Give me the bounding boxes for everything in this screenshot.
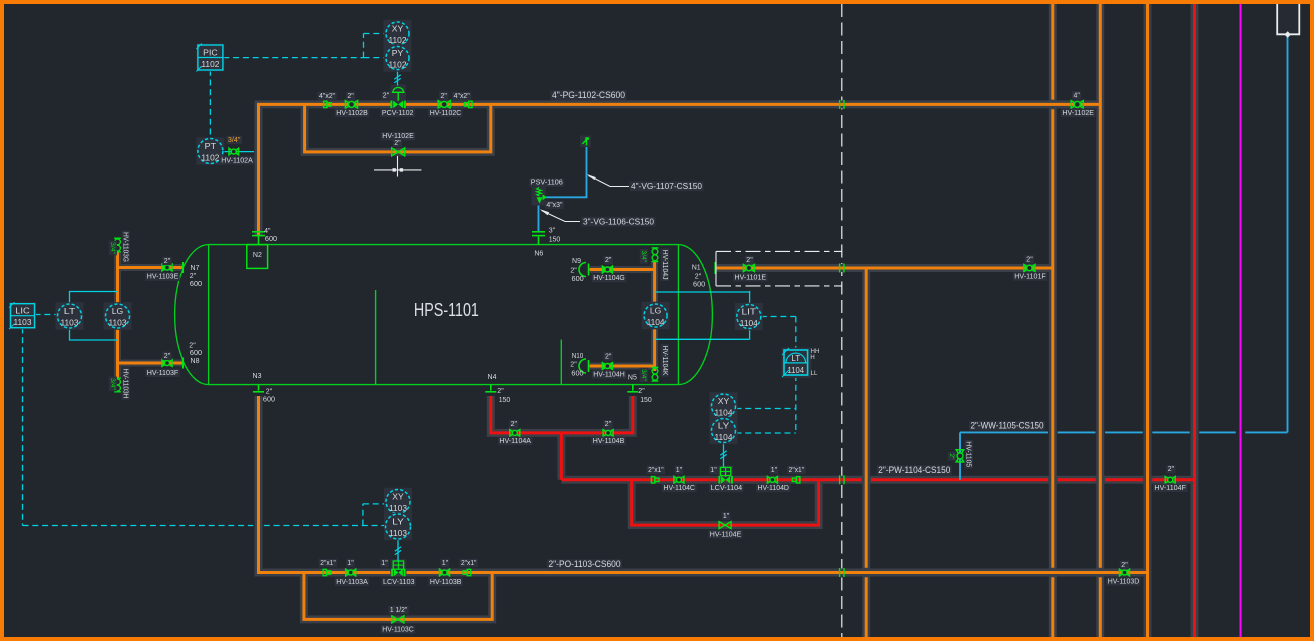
svg-text:2": 2" [638, 388, 645, 395]
label HV-1104A [498, 437, 533, 445]
svg-text:LCV-1103: LCV-1103 [383, 579, 415, 586]
right gauge standpipe [653, 261, 656, 304]
label HV-1102E bypass [381, 132, 416, 140]
svg-text:3"-VG-1106-CS150: 3"-VG-1106-CS150 [583, 216, 654, 226]
nozzle N7 [182, 262, 184, 273]
svg-text:HV-1103B: HV-1103B [430, 579, 462, 586]
svg-text:N7: N7 [191, 265, 200, 272]
pipe HV-1105 stub [959, 432, 961, 479]
valve HV-1104J 3/4" [652, 248, 659, 262]
label HV-1101F [1013, 272, 1048, 280]
svg-text:N3: N3 [253, 373, 262, 380]
magenta vertical line [1240, 4, 1242, 637]
svg-text:HV-1104G: HV-1104G [593, 275, 625, 282]
line label 4"-PG-1102-CS600 [551, 90, 627, 100]
valve HV-1104D [767, 477, 777, 484]
label HV-1103A [335, 578, 370, 586]
svg-text:PSV-1106: PSV-1106 [531, 180, 563, 187]
label HV-1103H [121, 367, 129, 400]
svg-text:1103: 1103 [61, 317, 79, 327]
reducer 1"x2" [463, 569, 471, 575]
signal PIC-1102 to PY/XY-1102 [223, 57, 363, 59]
label HV-1104K [661, 344, 669, 377]
svg-text:XY: XY [392, 491, 404, 501]
svg-text:HV-1104A: HV-1104A [499, 438, 531, 445]
svg-text:1102: 1102 [389, 35, 407, 45]
svg-text:HV-1102E: HV-1102E [1062, 110, 1094, 117]
svg-text:XY: XY [392, 23, 404, 33]
svg-text:LY: LY [718, 420, 730, 430]
valve HV-1102B [345, 101, 357, 109]
svg-text:3/4": 3/4" [109, 378, 116, 390]
svg-text:PY: PY [392, 48, 404, 58]
signal LT-1104 box to XY/LY-1104 [795, 375, 797, 433]
svg-text:2"-PW-1104-CS150: 2"-PW-1104-CS150 [878, 465, 950, 475]
label HV-1102C [428, 109, 463, 117]
label 2 [393, 139, 402, 147]
svg-text:3/4": 3/4" [228, 137, 241, 144]
signal LY-1103 to LCV-1103 [397, 539, 399, 561]
label HV-1104E [708, 530, 743, 538]
label HV-1104J [661, 248, 669, 281]
label HV-1105 [965, 440, 973, 469]
control valve LCV-1103 with piston actuator [390, 559, 406, 574]
pipe stub N9 [590, 268, 655, 271]
label HV-1102B [335, 109, 370, 117]
svg-text:2": 2" [1168, 466, 1175, 473]
svg-text:3/4": 3/4" [640, 251, 647, 263]
svg-text:600: 600 [693, 282, 705, 289]
svg-text:HV-1104H: HV-1104H [593, 372, 625, 379]
svg-text:HV-1103E: HV-1103E [147, 274, 179, 281]
svg-text:2"-WW-1105-CS150: 2"-WW-1105-CS150 [971, 421, 1044, 431]
valve HV-1102C [438, 101, 450, 109]
valve HV-1103A [346, 569, 356, 576]
line break marker [840, 264, 844, 273]
signal PIC-1102 to PT-1102 [209, 70, 211, 138]
svg-text:1": 1" [347, 560, 354, 567]
pipe PO bypass loop (HV-1103C) [304, 573, 492, 620]
svg-text:HV-1104B: HV-1104B [593, 438, 625, 445]
instrument LT-1103 [56, 302, 84, 330]
svg-text:PIC: PIC [203, 47, 218, 57]
control valve LCV-1104 with piston actuator [718, 466, 733, 481]
instrument LG-1104 [642, 302, 670, 330]
label HV-1103D [1106, 577, 1141, 585]
manway nozzle N2 [247, 245, 268, 269]
svg-text:600: 600 [572, 276, 584, 283]
svg-text:3": 3" [549, 228, 556, 235]
svg-text:HV-1101F: HV-1101F [1014, 274, 1046, 281]
svg-text:2": 2" [695, 274, 702, 281]
pipe PW bypass loop (HV-1104E) [632, 480, 819, 525]
svg-text:2"-PO-1103-CS600: 2"-PO-1103-CS600 [549, 559, 621, 569]
signal LIC-1103 to XY/LY-1103 [22, 328, 24, 526]
line label 4"-VG-1107-CS150 [630, 181, 704, 191]
instrument LIC-1103 [9, 302, 36, 329]
svg-text:H: H [810, 355, 814, 361]
svg-text:1103: 1103 [109, 317, 127, 327]
svg-text:2": 2" [605, 421, 612, 428]
battery limit dashed line [841, 4, 843, 637]
label 3/4 [640, 368, 648, 383]
valve HV-1103B [440, 569, 450, 576]
svg-text:2": 2" [746, 257, 753, 264]
svg-text:1": 1" [710, 467, 717, 474]
svg-text:LIC: LIC [15, 306, 30, 316]
svg-text:1": 1" [676, 467, 683, 474]
signal LY-1104 to LCV-1104 [723, 443, 725, 468]
label 2 [346, 92, 355, 100]
line label 2"-WW-1105-CS150 [969, 421, 1045, 431]
valve HV-1104C [674, 477, 684, 484]
valve HV-1102E (header) [1071, 101, 1083, 109]
svg-text:LT: LT [64, 306, 76, 316]
location crosshair below HV-1102E [374, 156, 422, 177]
nozzle N3 flange [253, 385, 264, 392]
red vertical header V4 [1193, 4, 1196, 637]
valve HV-1103E [162, 264, 172, 271]
vessel HPS-1101 shell [175, 245, 713, 385]
instrument PIC-1102 [196, 44, 224, 72]
svg-text:1102: 1102 [201, 152, 219, 162]
valve HV-1104A [510, 430, 520, 437]
svg-text:1102: 1102 [201, 59, 219, 69]
tap PT-1102 / HV-1102A [224, 151, 254, 153]
nozzle N10 [579, 359, 589, 373]
pipe drain from N5 [561, 396, 632, 433]
orange vertical header V1 (breaks at PG and PO crossings) [1051, 4, 1054, 100]
signal LIC-1103 to LT-1103 [35, 314, 58, 316]
bypass valve HV-1102E [392, 148, 405, 156]
instrument PT-1102 [196, 137, 224, 165]
signal LIT-1104 to LT-1104 box [761, 316, 796, 318]
svg-text:HV-1102B: HV-1102B [336, 110, 368, 117]
pipe 4"-PG-1102-CS600 riser from N2 and header [259, 104, 1101, 236]
label 1 [441, 559, 450, 567]
leader to 4"-VG-1107-CS150 [589, 176, 630, 187]
svg-text:HV-1104C: HV-1104C [663, 485, 695, 492]
svg-text:4"x2": 4"x2" [454, 93, 471, 100]
instrument LY-1104 [710, 417, 738, 445]
valve body PCV-1102 [391, 101, 405, 109]
reducer 2"x4" [465, 101, 473, 107]
control valve PCV-1102 with diaphragm actuator [391, 85, 407, 109]
svg-text:1103: 1103 [389, 503, 407, 513]
svg-text:HV-1103G: HV-1103G [122, 232, 129, 262]
svg-text:LG: LG [650, 305, 662, 315]
svg-text:HV-1103F: HV-1103F [147, 370, 179, 377]
svg-text:4"x3": 4"x3" [546, 202, 563, 209]
svg-text:2"x1": 2"x1" [461, 560, 477, 567]
label HV-1104C [662, 484, 697, 492]
line label 3"-VG-1106-CS150 [582, 217, 656, 227]
svg-text:PCV-1102: PCV-1102 [382, 110, 414, 117]
pipe stub N7 [118, 266, 183, 269]
svg-text:2": 2" [164, 258, 171, 265]
pipe 2" line from N1 [717, 267, 1053, 270]
svg-text:1 1/2": 1 1/2" [390, 607, 408, 614]
svg-text:LT: LT [791, 354, 800, 363]
svg-text:1102: 1102 [389, 59, 407, 69]
svg-text:LL: LL [811, 371, 818, 377]
nozzle N6 flange [532, 232, 545, 245]
svg-text:HV-1104D: HV-1104D [757, 485, 789, 492]
line break marker [840, 100, 844, 109]
svg-text:4": 4" [264, 228, 271, 235]
svg-text:HV-1103A: HV-1103A [336, 579, 368, 586]
svg-text:3/4": 3/4" [640, 369, 647, 381]
svg-text:4"-VG-1107-CS150: 4"-VG-1107-CS150 [631, 181, 702, 191]
label 2 [162, 257, 171, 265]
svg-text:150: 150 [499, 397, 511, 404]
svg-text:4": 4" [1074, 92, 1081, 99]
label 3/4 [109, 241, 117, 256]
svg-text:2"x1": 2"x1" [648, 467, 664, 474]
label HV-1104H [592, 370, 627, 378]
label 4x2 [318, 92, 337, 100]
svg-text:2": 2" [164, 353, 171, 360]
nozzle N9 [579, 263, 589, 277]
valve HV-1104G [602, 266, 612, 273]
label 1 [346, 559, 355, 567]
svg-text:2"x1": 2"x1" [320, 560, 336, 567]
svg-text:600: 600 [190, 281, 202, 288]
svg-text:N8: N8 [191, 358, 200, 365]
label 1 [675, 466, 684, 474]
svg-text:2": 2" [394, 140, 401, 147]
svg-text:2"x1": 2"x1" [789, 467, 805, 474]
svg-text:2": 2" [383, 93, 390, 100]
svg-text:1": 1" [771, 467, 778, 474]
svg-text:XY: XY [718, 396, 730, 406]
signal PY-1102 to PCV-1102 [397, 70, 399, 86]
leader to 3"-VG-1106-CS150 [542, 211, 581, 222]
valve HV-1102A [229, 148, 239, 155]
svg-text:HV-1102A: HV-1102A [221, 157, 253, 164]
svg-text:150: 150 [640, 397, 652, 404]
label 2x1 [647, 466, 666, 474]
label 4 [1072, 91, 1081, 99]
label 2 [745, 256, 754, 264]
svg-text:N2: N2 [253, 252, 262, 259]
instrument XY-1102 [384, 20, 412, 48]
label 3/4 orange [227, 136, 243, 144]
valve HV-1101E [743, 265, 754, 272]
svg-text:2": 2" [570, 362, 577, 369]
label HV-1103F [145, 369, 180, 377]
relief valve PSV-1106 [532, 187, 547, 206]
svg-text:2": 2" [497, 388, 504, 395]
svg-text:HV-1103D: HV-1103D [1108, 579, 1140, 586]
svg-text:2": 2" [511, 421, 518, 428]
label 1 [709, 466, 718, 474]
label 1 [770, 466, 779, 474]
nozzle N2 riser flange flange [252, 232, 265, 245]
label 2 [604, 352, 613, 360]
svg-text:LG: LG [112, 306, 124, 316]
reducer 2"x1" [651, 477, 659, 483]
svg-text:2": 2" [948, 454, 955, 461]
label HV-1102A [220, 156, 255, 164]
svg-text:N9: N9 [572, 258, 581, 265]
label 2 [162, 352, 171, 360]
label 3/4 [640, 249, 648, 264]
svg-text:HV-1103H: HV-1103H [122, 369, 129, 399]
line break marker [840, 568, 844, 577]
valve HV-1104F [1165, 477, 1175, 484]
instrument XY-1103 [384, 488, 412, 516]
svg-text:1104: 1104 [740, 318, 758, 328]
valve HV-1104K 3/4" [652, 367, 659, 381]
svg-text:LCV-1104: LCV-1104 [711, 485, 743, 492]
valve HV-1103F [162, 360, 172, 367]
svg-text:HV-1104K: HV-1104K [661, 346, 668, 376]
svg-text:HPS-1101: HPS-1101 [414, 299, 479, 320]
label HV-1103E [145, 273, 180, 281]
label HV-1104D [756, 484, 791, 492]
gauge taps LT-1103 [70, 292, 118, 341]
valve HV-1104B [603, 430, 613, 437]
reducer 4"x2" [324, 101, 332, 107]
svg-text:1103: 1103 [389, 528, 407, 538]
label 2 [439, 92, 448, 100]
label 2 [603, 420, 612, 428]
label LCV-1103 [382, 578, 417, 586]
valve HV-1105 [956, 450, 964, 462]
utility header to flare (cyan vertical) [1287, 37, 1289, 432]
instrument LIT-1104 [735, 303, 763, 331]
svg-text:HV-1104J: HV-1104J [661, 250, 668, 280]
pipe drain from N4 [491, 396, 562, 433]
orange vertical header V3 [1146, 4, 1149, 637]
pipe PG bypass loop [305, 104, 491, 151]
nozzle N1 [714, 262, 716, 274]
svg-text:N5: N5 [628, 375, 637, 382]
vessel internal line 1 [375, 290, 377, 385]
left gauge standpipe [116, 252, 119, 304]
label HV-1103C [381, 625, 416, 633]
battery-limit box around HV-1101E [716, 251, 842, 286]
line break marker [840, 475, 844, 484]
label 2 [948, 452, 956, 461]
orange vertical header V2 (breaks at PO crossing) [1099, 4, 1102, 568]
svg-text:1": 1" [723, 513, 730, 520]
svg-text:2": 2" [189, 343, 196, 350]
svg-text:HV-1104F: HV-1104F [1154, 485, 1186, 492]
svg-text:N10: N10 [572, 353, 584, 360]
svg-text:HV-1104E: HV-1104E [710, 531, 742, 538]
instrument XY-1104 [710, 392, 738, 420]
label HV-1101E [733, 273, 768, 281]
pipe 2"-PO-1103-CS600 from N3 [259, 396, 1148, 573]
valve body LCV-1104 [719, 476, 732, 484]
svg-text:N6: N6 [534, 251, 543, 258]
off-page connector (top right) [1277, 4, 1299, 34]
orange vertical from HV-1101 line (V0, breaks at PO crossing) [865, 268, 868, 568]
svg-text:4"x2": 4"x2" [319, 93, 336, 100]
svg-text:2": 2" [605, 353, 612, 360]
nozzle N4 flange [485, 385, 496, 392]
instrument LY-1103 [384, 513, 412, 541]
label 1 [722, 512, 731, 520]
svg-text:2": 2" [266, 389, 273, 396]
label LCV-1104 [709, 484, 744, 492]
label 2 [604, 256, 613, 264]
svg-text:600: 600 [571, 371, 583, 378]
svg-text:N4: N4 [488, 374, 497, 381]
svg-text:2": 2" [605, 257, 612, 264]
label 2 [1025, 255, 1034, 263]
svg-text:LIT: LIT [742, 306, 757, 316]
PSV inlet pipe 3"-VG-1106 [538, 204, 540, 231]
label 2x1 [459, 559, 478, 567]
label HV-1102E header [1061, 109, 1096, 117]
svg-text:150: 150 [549, 236, 561, 243]
nozzle N8 [182, 358, 184, 369]
label 2x1 [787, 466, 806, 474]
svg-text:4"-PG-1102-CS600: 4"-PG-1102-CS600 [552, 90, 625, 100]
svg-text:1104: 1104 [715, 432, 733, 442]
line label 2"-PO-1103-CS600 [547, 559, 622, 569]
svg-text:HV-1103C: HV-1103C [382, 626, 414, 633]
svg-text:HV-1102C: HV-1102C [430, 110, 462, 117]
label 1 [380, 559, 389, 567]
label 3/4 [109, 377, 117, 392]
svg-text:N1: N1 [692, 265, 701, 272]
label HV-1103G [121, 231, 129, 264]
label PCV-1102 [380, 109, 415, 117]
label HV-1104F [1153, 484, 1188, 492]
reducer 2"x1" [323, 569, 331, 575]
label HV-1104G [592, 274, 627, 282]
svg-text:3/4": 3/4" [109, 242, 116, 254]
PSV outlet pipe 4"-VG-1107 [544, 145, 587, 197]
nozzle N5 flange [627, 385, 638, 392]
svg-text:LY: LY [392, 516, 404, 526]
valve body LCV-1103 [392, 569, 405, 577]
svg-text:HV-1105: HV-1105 [965, 441, 972, 467]
valve HV-1103H 3/4" [114, 378, 121, 392]
svg-text:600: 600 [265, 236, 277, 243]
svg-text:HV-1101E: HV-1101E [735, 274, 767, 281]
svg-text:1104: 1104 [788, 366, 805, 375]
vent flag atop 4"-VG-1107 [580, 136, 591, 148]
svg-text:1": 1" [381, 560, 388, 567]
valve HV-1101F [1024, 265, 1035, 272]
svg-text:1": 1" [442, 560, 449, 567]
svg-text:2": 2" [1026, 257, 1033, 264]
bypass valve HV-1104E [719, 522, 731, 529]
svg-text:1104: 1104 [715, 407, 733, 417]
svg-text:2": 2" [570, 268, 577, 275]
svg-text:2": 2" [441, 93, 448, 100]
label 2x1 [319, 559, 338, 567]
label 2 [1166, 465, 1175, 473]
label HV-1103B [428, 578, 463, 586]
instrument PY-1102 [384, 44, 412, 72]
svg-text:2": 2" [1121, 562, 1128, 569]
label 2 [1120, 561, 1129, 569]
label 4x3 [545, 201, 564, 209]
svg-text:1103: 1103 [14, 317, 32, 327]
gauge taps LIT-1104 [655, 291, 750, 340]
level switch LT-1104 [782, 348, 812, 379]
line label 2"-PW-1104-CS150 [877, 465, 952, 475]
pipe stub N10 [590, 365, 655, 368]
label 2 [509, 420, 518, 428]
label 2 [381, 91, 390, 99]
